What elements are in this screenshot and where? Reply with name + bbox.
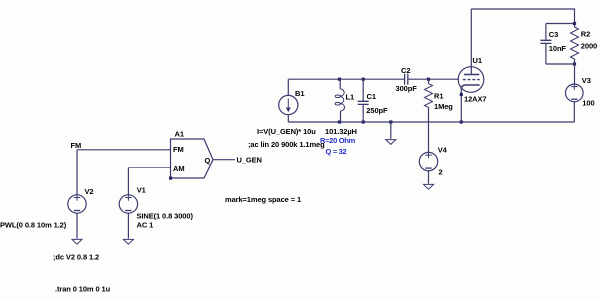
node C1 top dot <box>362 78 365 81</box>
wire top rail B1 to C2 <box>288 78 404 80</box>
svg-text:10nF: 10nF <box>549 44 567 53</box>
svg-text:FM: FM <box>71 141 82 150</box>
node R2 top dot <box>573 22 576 25</box>
voltage source V2 <box>68 195 86 213</box>
svg-text:V2: V2 <box>85 187 94 196</box>
inductor L1 <box>339 79 341 89</box>
wire FM net vertical to V2 <box>76 150 78 195</box>
wire FM net horizontal <box>77 149 171 151</box>
svg-text:U1: U1 <box>473 56 482 65</box>
ground below V4 <box>424 184 434 189</box>
svg-text:R2: R2 <box>581 29 590 38</box>
wire top rail to R2 column <box>471 9 574 24</box>
wire plate lead up <box>470 9 472 75</box>
ground stub on rail <box>390 122 392 139</box>
ground symbol mid <box>386 140 396 145</box>
svg-text:V4: V4 <box>438 145 448 154</box>
svg-text:250pF: 250pF <box>366 106 388 115</box>
resistor R2 <box>574 25 576 27</box>
node C1 bottom dot <box>362 120 365 123</box>
U1 cathode <box>461 85 479 89</box>
modulator block A1 <box>171 139 214 178</box>
wire C2 to tube grid <box>408 78 459 80</box>
wire V1 to AM (lighter) <box>128 167 170 169</box>
svg-text:B1: B1 <box>295 89 304 98</box>
svg-text:mark=1meg space = 1: mark=1meg space = 1 <box>225 195 301 204</box>
current source B1 <box>279 95 298 114</box>
wire B1 bottom <box>287 115 289 122</box>
wire V1 vertical <box>127 168 129 195</box>
svg-text:C1: C1 <box>367 92 376 101</box>
ground below V1 <box>123 239 133 244</box>
svg-text:C2: C2 <box>401 66 410 75</box>
svg-text:.tran 0 10m 0 1u: .tran 0 10m 0 1u <box>55 284 111 293</box>
svg-text:12AX7: 12AX7 <box>464 94 486 103</box>
svg-text:AC 1: AC 1 <box>137 220 154 229</box>
voltage source V3 <box>574 64 576 84</box>
capacitor C3 <box>545 24 547 41</box>
wire V1 to ground <box>127 213 129 238</box>
svg-text:L1: L1 <box>346 92 355 101</box>
svg-text:U_GEN: U_GEN <box>237 155 262 164</box>
svg-text:1Meg: 1Meg <box>434 102 453 111</box>
svg-text:C3: C3 <box>549 30 558 39</box>
wire V2 to ground <box>76 213 78 238</box>
svg-text:FM: FM <box>173 145 184 154</box>
node ground stub dot <box>389 120 392 123</box>
wire V4 to ground <box>428 171 430 184</box>
svg-text:R1: R1 <box>434 91 443 100</box>
svg-text:V3: V3 <box>582 76 591 85</box>
svg-text:AM: AM <box>173 164 184 173</box>
resistor R1 <box>428 79 430 83</box>
voltage source V1 <box>119 195 137 213</box>
svg-text:2000: 2000 <box>581 41 597 50</box>
svg-text:;ac lin 20 900k 1.1meg: ;ac lin 20 900k 1.1meg <box>248 140 325 149</box>
wire Q output to U_GEN <box>213 159 235 161</box>
node cathode rail dot <box>460 120 463 123</box>
svg-text:I=V(U_GEN)* 10u: I=V(U_GEN)* 10u <box>257 127 316 136</box>
svg-text:V1: V1 <box>137 185 146 194</box>
svg-text:Q: Q <box>205 156 211 165</box>
svg-text:Q = 32: Q = 32 <box>326 147 347 156</box>
node L1 bottom dot <box>338 120 341 123</box>
svg-text:SINE(1 0.8 3000): SINE(1 0.8 3000) <box>137 211 194 220</box>
triode U1 envelope <box>458 67 484 93</box>
wire C3 bottom bar <box>546 63 575 65</box>
wire bottom rail <box>288 121 574 123</box>
svg-text:;dc V2 0.8 1.2: ;dc V2 0.8 1.2 <box>53 252 99 261</box>
node R1 top dot <box>427 78 430 81</box>
node AM junction dot <box>169 177 172 180</box>
wire B1 top <box>287 79 289 95</box>
wire V3 bottom to rail <box>573 102 575 122</box>
wire cathode lead down <box>460 89 462 123</box>
svg-text:PWL(0 0.8 10m 1.2): PWL(0 0.8 10m 1.2) <box>0 220 67 229</box>
svg-text:A1: A1 <box>175 130 184 139</box>
svg-text:101.32µH: 101.32µH <box>325 127 357 136</box>
node L1 top dot <box>338 78 341 81</box>
svg-text:100: 100 <box>582 98 594 107</box>
svg-text:2: 2 <box>439 167 443 176</box>
capacitor C1 <box>362 79 364 101</box>
node cathode pin dot <box>460 93 463 96</box>
voltage source V4 <box>419 152 437 170</box>
node R2 bottom dot <box>573 62 576 65</box>
capacitor C2 <box>405 74 408 85</box>
ground below V2 <box>72 239 82 244</box>
svg-text:300pF: 300pF <box>396 84 418 93</box>
svg-text:R=20 Ohm: R=20 Ohm <box>320 136 356 145</box>
U1 grid dashes <box>463 79 480 81</box>
U1 plate <box>464 74 479 76</box>
wire C3 top bar <box>546 23 575 25</box>
